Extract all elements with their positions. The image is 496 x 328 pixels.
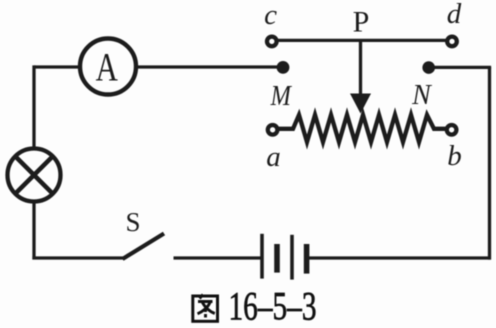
- terminal b: [447, 125, 457, 135]
- slider P stem: [359, 40, 362, 98]
- wire bottom left to switch: [32, 256, 123, 259]
- terminal c: [267, 37, 277, 47]
- node N (junction dot): [422, 61, 435, 74]
- ammeter A: [80, 39, 136, 95]
- svg-text:a: a: [266, 141, 281, 173]
- wire node N to right vertical: [429, 66, 491, 69]
- svg-text:16–5–3: 16–5–3: [229, 284, 317, 328]
- wire left vertical upper: [32, 65, 35, 150]
- wire battery to bottom right corner: [308, 256, 491, 259]
- cell plate short 2: [304, 244, 310, 274]
- svg-text:M: M: [270, 79, 293, 111]
- lamp L: [8, 149, 61, 202]
- cell plate long 1: [260, 234, 264, 279]
- cell plate long 2: [290, 235, 294, 280]
- svg-text:d: d: [447, 0, 462, 30]
- svg-text:A: A: [96, 45, 118, 90]
- wire left vertical lower: [32, 200, 35, 259]
- rheostat resistor zigzag a-b: [279, 115, 447, 142]
- node M (junction dot): [277, 61, 290, 74]
- wire top-left horizontal: [34, 65, 81, 68]
- wire right vertical: [488, 67, 491, 260]
- svg-text:c: c: [264, 0, 277, 31]
- caption CJK glyph 图 (drawn): [193, 295, 218, 322]
- battery (two cells): [262, 234, 307, 280]
- svg-text:b: b: [447, 140, 462, 172]
- slider P arrowhead: [350, 94, 371, 114]
- rheostat top bar c-d: [277, 39, 447, 42]
- cell plate short 1: [274, 244, 280, 273]
- wire ammeter to node M: [136, 65, 280, 68]
- terminal a: [268, 125, 278, 135]
- svg-text:P: P: [353, 6, 370, 39]
- svg-text:N: N: [411, 80, 432, 111]
- svg-text:S: S: [125, 207, 140, 237]
- terminal d: [447, 37, 457, 47]
- wire switch to battery: [174, 256, 262, 259]
- switch S blade: [123, 234, 165, 260]
